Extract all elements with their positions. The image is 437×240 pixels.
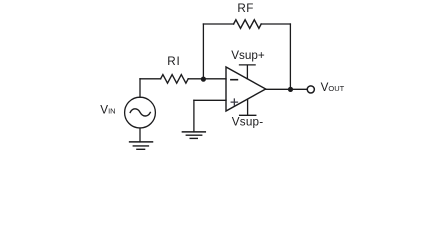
resistor RI <box>161 75 189 84</box>
op-amp plus symbol <box>231 99 237 105</box>
wire VIN bottom to ground <box>139 128 141 142</box>
wire RF left segment <box>203 23 233 25</box>
wire op-amp output <box>266 88 307 90</box>
ground at noninverting input <box>182 131 205 133</box>
op-amp minus symbol <box>231 79 238 81</box>
resistor RF <box>234 20 262 29</box>
wire VIN top to main rail <box>139 79 141 97</box>
node B output junction dot <box>288 87 293 92</box>
node A junction dot <box>201 77 206 82</box>
terminal VOUT open circle <box>307 86 314 93</box>
wire down to ground at noninverting input <box>193 100 195 132</box>
wire op-amp noninverting input <box>194 99 226 101</box>
svg-text:Vsup+: Vsup+ <box>231 49 265 62</box>
svg-text:RI: RI <box>167 55 180 68</box>
power pin Vsup- <box>240 99 256 115</box>
svg-text:Vsup-: Vsup- <box>232 115 264 128</box>
source VIN <box>125 97 156 128</box>
wire RF right segment <box>261 23 290 25</box>
wire node A up to RF <box>202 24 204 79</box>
wire RF down to output node <box>289 24 291 89</box>
svg-text:RF: RF <box>237 2 253 15</box>
wire RI to op-amp inverting input <box>188 78 226 80</box>
wire main rail to RI <box>140 78 161 80</box>
power pin Vsup+ <box>240 65 256 79</box>
ground below VIN <box>130 141 153 143</box>
op-amp U1 <box>226 67 266 111</box>
